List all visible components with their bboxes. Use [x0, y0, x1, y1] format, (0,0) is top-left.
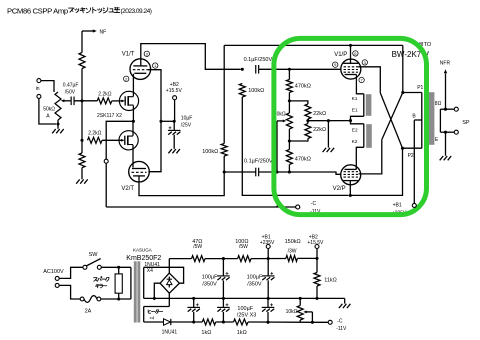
transformer secondary winding 8Ω — [435, 101, 446, 143]
node HT rail 2 (+B1) — [267, 257, 270, 260]
wire pot bottom to ground — [57, 124, 59, 129]
node V1/P coupling — [241, 68, 244, 71]
svg-text:K2: K2 — [352, 139, 358, 145]
pin 6 (V1/P) — [353, 51, 358, 56]
resistor 2.2kΩ (upper grid stopper) — [97, 92, 112, 104]
junction marker (-C bus) — [276, 204, 279, 207]
svg-text:+15.5V: +15.5V — [166, 88, 183, 94]
terminal AC100V — [43, 269, 64, 287]
node P1 — [401, 91, 404, 94]
capacitor 0.47µF/50V — [63, 83, 79, 106]
wire 0V to ground — [344, 298, 346, 303]
svg-text:8Ω: 8Ω — [435, 101, 442, 107]
svg-text:K1: K1 — [352, 96, 358, 102]
svg-text:E2: E2 — [352, 127, 358, 133]
svg-text:KmB250F2: KmB250F2 — [126, 255, 161, 262]
NFR arrow — [440, 60, 451, 109]
wire +B2 terminal drop — [173, 100, 175, 122]
wire HT rail segment 1 — [169, 258, 191, 260]
spark killer (snubber) — [94, 267, 123, 299]
capacitor 100µF/25V (heater 2) — [217, 298, 230, 322]
node ground tap — [327, 119, 330, 122]
svg-text:50kΩ: 50kΩ — [43, 106, 55, 112]
svg-text:in: in — [36, 86, 40, 92]
wire cap to FET1 gate — [74, 100, 97, 102]
NF arrow and label — [82, 29, 106, 35]
node 0V HT cap 1 — [222, 297, 225, 300]
transformer secondary HT — [143, 267, 145, 298]
wire FET1 drain to V1/T cathode — [132, 74, 134, 97]
wire drop to -C bus — [105, 163, 107, 207]
wire -C bus — [106, 206, 295, 208]
svg-text:100kΩ: 100kΩ — [202, 149, 218, 155]
svg-text:100kΩ: 100kΩ — [248, 88, 264, 94]
wire V1/P screen to cross — [358, 67, 380, 93]
wire bridge DC- to heater winding — [168, 293, 170, 306]
wire ground drop (divider) — [327, 121, 329, 148]
capacitor 100µF/350V (first) — [202, 259, 230, 299]
wire 0V rail — [144, 297, 345, 299]
resistor 470kΩ (lower) — [286, 141, 310, 172]
svg-text:22kΩ: 22kΩ — [313, 127, 326, 133]
wire NF bus to tail resistor — [81, 140, 83, 153]
wire V2/P screen to cross — [359, 140, 382, 174]
svg-text:150kΩ: 150kΩ — [285, 239, 301, 245]
wire heater winding to diode — [144, 321, 164, 323]
ground (tail resistor) — [76, 179, 88, 183]
capacitor 10µF/25V (electrolytic) — [168, 116, 192, 135]
transformer KmB250F2 core — [134, 261, 140, 322]
capacitor 100µF/25V (heater 3) — [237, 298, 274, 322]
node HT rail 1 — [222, 257, 225, 260]
wire cap to V2/P grid — [259, 172, 342, 174]
terminal +B1 +235V (PSU) — [260, 235, 275, 259]
ground (input pot) — [52, 129, 64, 133]
input jack terminals 'in' — [36, 79, 41, 99]
wire input return — [39, 98, 56, 124]
wire HT rail segment 4 — [297, 257, 317, 259]
svg-text:2A: 2A — [85, 309, 92, 315]
resistor 100Ω/5W — [235, 239, 251, 262]
node 470k upper tap — [288, 68, 291, 71]
transformer KmB250F2 primary — [130, 267, 132, 299]
wire HT rail segment 2 — [205, 258, 238, 260]
resistor NF (no value) — [79, 53, 85, 69]
svg-text:100µF: 100µF — [247, 275, 263, 281]
capacitor 0.1µF/250V (lower coupling) — [244, 158, 273, 176]
terminal +B1 (top section) — [392, 202, 407, 216]
pin 2 (V1/T) — [124, 76, 129, 81]
svg-text:+B2: +B2 — [170, 82, 179, 88]
terminal -C -11V (top section) — [296, 201, 321, 215]
terminal SP (speaker) — [454, 107, 470, 134]
transformer winding E2-K2 — [351, 121, 364, 148]
svg-text:2SK117 X2: 2SK117 X2 — [97, 113, 122, 119]
node +B2 bypass — [173, 120, 176, 123]
ground (secondary) — [440, 156, 452, 160]
potentiometer 100kΩ balance — [277, 101, 293, 141]
wire bridge DC+ riser — [168, 259, 170, 274]
svg-text:1kΩ: 1kΩ — [201, 330, 211, 336]
resistor 1kΩ (bias filter 2) — [234, 319, 249, 336]
wire bias rail mid — [216, 321, 234, 323]
node bias rail 3 — [266, 321, 269, 324]
node 0V 11k — [315, 297, 318, 300]
tube V1/T (triode) — [122, 51, 151, 79]
wire plate-feed bus (upper) — [224, 44, 403, 46]
resistor 22kΩ (lower) — [289, 121, 326, 141]
label transformer BW-2K7W — [392, 50, 430, 59]
wire NF bus upper — [81, 31, 83, 53]
wire V2/T cathode loop — [139, 172, 224, 196]
node pot bottom junction — [288, 139, 291, 142]
svg-text:AC100V: AC100V — [43, 269, 64, 275]
wire AC neutral to fuse — [59, 285, 80, 299]
node 22k midpoint — [306, 119, 309, 122]
svg-text:/350V: /350V — [202, 282, 217, 288]
svg-text:1NU41: 1NU41 — [162, 329, 178, 335]
pin 9 (V1/P) — [333, 62, 338, 67]
terminal +B1 (redrawn) — [412, 203, 416, 207]
svg-text:×4: ×4 — [149, 316, 155, 321]
cross wire 1 (V1/P screen to P2) — [380, 93, 402, 148]
svg-text:0.1µF/250V: 0.1µF/250V — [244, 158, 273, 164]
wire P2 to winding — [403, 148, 422, 159]
wire pot wiper to cap — [69, 100, 72, 102]
tube V2/P (pentode, inverted) — [333, 165, 361, 192]
svg-text:NFR: NFR — [440, 60, 451, 66]
wire NF bus to input node — [81, 69, 83, 101]
terminal -C (redrawn) — [296, 205, 300, 209]
transformer secondary heater — [144, 307, 170, 323]
wire FET2 drain to node — [132, 121, 134, 136]
node bias rail wiper — [311, 321, 314, 324]
node bridge AC2 — [153, 297, 156, 300]
wire bridge AC2 to rail — [154, 283, 160, 298]
svg-text:10kΩ: 10kΩ — [286, 309, 298, 315]
svg-text:P1: P1 — [417, 85, 423, 91]
node grid-chain/+B2 — [159, 120, 162, 123]
wire NF bus middle — [81, 101, 83, 140]
terminal (bias feed-through) — [104, 159, 108, 163]
wire FET2 source to V2/T plate — [132, 145, 134, 168]
svg-text:NF: NF — [100, 29, 107, 35]
bridge rectifier 1NU41 X4 — [144, 262, 179, 293]
terminal +B2 +15.5V (top) — [166, 82, 183, 100]
wire V1/P plate riser — [350, 45, 352, 63]
resistor 11kΩ — [314, 258, 337, 298]
wire 2.2k to FET1 gate — [112, 99, 125, 102]
svg-text:-C: -C — [337, 319, 343, 325]
wire P1 riser — [402, 45, 404, 92]
ground (PSU) — [339, 304, 351, 308]
transistor 2SK117 (upper JFET) — [119, 91, 138, 110]
tube V2/T (triode) — [121, 161, 149, 192]
resistor 47Ω/5W — [192, 239, 206, 262]
capacitor 100µF/350V (second) — [247, 259, 275, 299]
node spark killer top — [117, 266, 120, 269]
wire bias to -C terminal — [312, 321, 328, 323]
terminal +B2 +15.5V (PSU) — [307, 235, 324, 259]
resistor 2.2kΩ (lower grid stopper) — [88, 131, 103, 144]
label KmB250F2 — [126, 255, 161, 262]
wire to SP hot — [446, 108, 455, 110]
wire P1 to winding — [403, 85, 424, 93]
wire to SP cold — [446, 131, 455, 133]
svg-text:470kΩ: 470kΩ — [295, 84, 311, 90]
wire 2.2k to FET2 gate — [102, 139, 125, 142]
svg-text:V2/T: V2/T — [121, 186, 134, 192]
node bias rail 1 — [192, 320, 195, 323]
wire 100k to cap node — [223, 156, 225, 172]
svg-text:SW: SW — [89, 252, 99, 258]
node P2 — [401, 147, 404, 150]
wire tail to ground — [81, 168, 83, 180]
node 0V HT cap 2 — [267, 297, 270, 300]
svg-text:(2023.09.24): (2023.09.24) — [121, 8, 152, 15]
svg-text:/5W: /5W — [239, 244, 248, 250]
transformer winding P1-B-P2 — [412, 93, 421, 149]
wire +B2 node link — [161, 120, 174, 122]
tube V1/P (pentode) — [334, 52, 361, 79]
diode 1NU41 (bias rectifier) — [162, 319, 178, 336]
wire midpoint to winding centre — [308, 120, 351, 122]
capacitor 100µF/25V (heater 1) — [187, 298, 200, 322]
svg-text:V2/P: V2/P — [333, 186, 346, 192]
svg-text:E1: E1 — [352, 107, 358, 113]
pin 3 (V1/T) — [144, 51, 149, 56]
svg-text:100µF: 100µF — [237, 306, 253, 312]
wire diode to bias rail — [171, 321, 203, 323]
svg-text:0.1µF/250V: 0.1µF/250V — [244, 57, 273, 63]
pin 3 (V1/P) — [362, 60, 367, 65]
label maker 8ITO — [419, 42, 432, 48]
resistor 470kΩ (upper) — [286, 69, 310, 101]
node pot bottom — [56, 122, 59, 125]
node bias rail 2 — [222, 320, 225, 323]
wire bias rail right — [248, 321, 312, 323]
resistor 150kΩ/3W — [285, 239, 301, 262]
wire switch to transformer — [101, 266, 131, 268]
node HT rail 3 (+B2) — [315, 257, 318, 260]
node E1/E2 centre — [349, 119, 352, 122]
svg-text:-11V: -11V — [336, 326, 347, 332]
transformer core (primary/secondary) — [429, 92, 435, 145]
node V2/P coupling — [223, 170, 226, 173]
label KASUGA — [133, 248, 152, 253]
svg-text:100µF: 100µF — [202, 275, 218, 281]
potentiometer 10kΩ (bias adjust) — [286, 298, 313, 322]
node balance wiper tap — [275, 170, 278, 173]
resistor 100kΩ (lower grid leak) — [202, 144, 227, 157]
cross wire 2 (V2/P screen to P1) — [382, 93, 403, 140]
svg-text:2.2kΩ: 2.2kΩ — [88, 131, 101, 137]
node 470k lower tap — [288, 170, 291, 173]
node divider upper — [288, 99, 291, 102]
node 0V pot — [299, 297, 302, 300]
resistor 100kΩ (upper grid leak) — [239, 84, 264, 98]
wire V1/T grid chain to V2/T — [148, 70, 161, 172]
svg-text:0kΩ: 0kΩ — [277, 111, 286, 117]
switch SW — [83, 252, 101, 269]
svg-text:+15.5V: +15.5V — [307, 240, 324, 246]
capacitor 0.1µF/250V (upper coupling) — [244, 57, 273, 73]
svg-text:V1/T: V1/T — [122, 51, 135, 57]
wire 10µF to ground — [173, 135, 175, 149]
wire FET1 source to node — [132, 105, 134, 121]
node V1/P plate tap — [349, 44, 352, 47]
svg-text:/50V: /50V — [65, 89, 76, 95]
resistor 22kΩ (upper) — [305, 104, 326, 121]
svg-text:/350V: /350V — [247, 282, 262, 288]
node FET interconnection — [132, 120, 135, 123]
node secondary hot — [444, 108, 447, 111]
svg-text:470kΩ: 470kΩ — [295, 157, 311, 163]
wire FET node to left drop — [106, 121, 133, 159]
svg-text:1kΩ: 1kΩ — [237, 330, 247, 336]
wire AC hot to switch — [59, 267, 83, 278]
wire V2/P cathode to K2 — [356, 147, 364, 169]
wire cap to V1/P grid — [259, 68, 341, 70]
svg-text:22kΩ: 22kΩ — [313, 111, 326, 117]
green highlight box — [274, 38, 427, 214]
wire secondary to ground — [445, 132, 447, 156]
svg-text:+B1: +B1 — [393, 202, 402, 208]
wire V1/T plate to coupling cap — [141, 44, 241, 70]
node secondary cold — [444, 131, 447, 134]
wire line-A drop — [223, 45, 225, 143]
svg-text:SP: SP — [462, 120, 470, 126]
wire V1/P cathode to K1 — [356, 78, 363, 94]
svg-text:V1/P: V1/P — [334, 52, 347, 58]
ground (divider midpoint) — [323, 148, 335, 152]
transistor 2SK117 (lower JFET) — [119, 131, 138, 150]
node V2/P plate bus — [349, 194, 352, 197]
svg-text:/25V: /25V — [181, 123, 192, 129]
svg-text:/3W: /3W — [288, 248, 297, 254]
wire secondary top to bridge — [144, 267, 184, 283]
node spark killer bottom — [117, 297, 120, 300]
potentiometer 50kΩ A (volume) — [43, 92, 70, 124]
svg-text:X4: X4 — [147, 268, 153, 274]
wire balance wiper drop — [276, 121, 278, 172]
pin 7 (V1/P) — [359, 77, 364, 82]
wire cap node to cap — [224, 171, 256, 173]
wire fuse to transformer — [101, 298, 131, 300]
svg-text:KASUGA: KASUGA — [133, 248, 152, 253]
node NF/input junction — [80, 99, 83, 102]
title text — [7, 6, 152, 15]
terminal -C -11V (PSU) — [328, 319, 347, 333]
node NF bus lower junction — [80, 139, 83, 142]
transformer winding K1-E1 — [351, 94, 364, 121]
pin 1 (V1/T) — [153, 63, 158, 68]
svg-text:PCM86 CSPP Amp: PCM86 CSPP Amp — [7, 6, 68, 15]
fuse 2A — [80, 296, 101, 315]
svg-text:-C: -C — [311, 201, 317, 207]
svg-text:11kΩ: 11kΩ — [324, 278, 337, 284]
node 0V heater cap 1 — [192, 297, 195, 300]
wire V2/P plate drop — [349, 181, 351, 196]
wire HT rail segment 3 — [251, 258, 286, 260]
svg-text:/5W: /5W — [193, 244, 202, 250]
resistor 1kΩ (bias filter 1) — [201, 319, 215, 336]
wire plate bus to P2 riser — [350, 148, 402, 195]
svg-text:+235V: +235V — [260, 240, 275, 246]
wire input hot — [41, 81, 54, 92]
svg-text:/25V X3: /25V X3 — [237, 313, 257, 319]
svg-text:10µF: 10µF — [181, 116, 193, 122]
wire 100k upper drop — [242, 97, 348, 195]
resistor tail (no value) — [79, 153, 85, 168]
svg-text:0.47µF: 0.47µF — [63, 83, 79, 89]
ground (10µF) — [168, 149, 180, 153]
wire B tap to +B1 — [413, 120, 415, 203]
svg-text:2.2kΩ: 2.2kΩ — [98, 92, 111, 98]
label 2SK117 X2 — [97, 113, 122, 119]
svg-text:P2: P2 — [408, 153, 414, 159]
wire divider upper link — [289, 101, 308, 104]
transformer core (cathode windings) — [366, 94, 372, 148]
